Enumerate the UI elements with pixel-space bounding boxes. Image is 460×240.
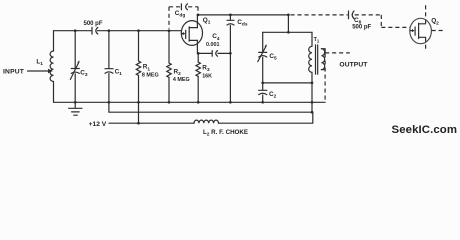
node rail1 / C1 xyxy=(108,101,111,104)
node rail1 / R3 xyxy=(197,101,200,104)
node tank bottom / T1 xyxy=(311,82,314,85)
capacitor 500pF (series, top rail) xyxy=(91,27,93,34)
transformer T1 primary xyxy=(311,32,313,46)
svg-text:T1: T1 xyxy=(314,37,320,43)
wire dashed output bottom to rail1 xyxy=(324,54,326,102)
node C4 / Cds column xyxy=(229,52,232,55)
resistor R3 xyxy=(197,53,199,62)
node drain / tank feed xyxy=(287,14,290,17)
svg-text:R1: R1 xyxy=(143,64,151,73)
node top rail / R2 / Cdg xyxy=(168,29,171,32)
wire dashed Q2 source xyxy=(425,38,427,49)
svg-text:C5: C5 xyxy=(269,53,277,62)
capacitor C4 xyxy=(198,52,211,54)
svg-text:R2: R2 xyxy=(174,68,182,77)
inductor L2 RF choke xyxy=(194,120,218,123)
wire INPUT lead xyxy=(28,70,49,72)
node rail1 / R1 xyxy=(137,101,140,104)
wire secondary bottom xyxy=(321,69,325,71)
svg-text:Cds: Cds xyxy=(237,19,248,28)
wire tank bottom horizontal xyxy=(263,82,312,84)
wire dashed C6 line xyxy=(291,14,348,16)
svg-text:500 pF: 500 pF xyxy=(84,21,103,27)
capacitor C2 xyxy=(262,83,264,90)
node rail1 / T1 column xyxy=(311,101,314,104)
svg-text:Q1: Q1 xyxy=(203,17,211,26)
transistor Q1 (FET in circle) xyxy=(181,21,202,46)
node drain / Cdg xyxy=(197,14,200,17)
wire ground rail (rail1) xyxy=(54,101,326,103)
node top rail / C3 xyxy=(74,29,77,32)
node source / R3 / C4 xyxy=(197,52,200,55)
wire tank top horizontal xyxy=(263,31,312,33)
node tank bottom / C5 C2 xyxy=(261,82,264,85)
wire top rail right segment xyxy=(97,30,181,32)
svg-text:C2: C2 xyxy=(269,91,277,100)
svg-text:L1: L1 xyxy=(36,58,43,67)
ground symbol xyxy=(69,102,82,115)
svg-text:R3: R3 xyxy=(202,65,210,74)
svg-text:0.001: 0.001 xyxy=(206,42,220,48)
resistor R2 xyxy=(168,31,170,63)
capacitor Cds xyxy=(229,15,231,20)
svg-text:+12 V: +12 V xyxy=(89,121,107,128)
node rail1 / R2 xyxy=(168,101,171,104)
node rail1 / C2 xyxy=(261,101,264,104)
transformer T1 secondary xyxy=(321,49,324,70)
capacitor C3 (variable) xyxy=(74,31,76,68)
svg-text:OUTPUT: OUTPUT xyxy=(339,62,368,69)
inductor L1 xyxy=(53,31,55,51)
svg-text:500 pF: 500 pF xyxy=(352,24,371,30)
wire tank feed vertical xyxy=(287,15,289,32)
capacitor C1 xyxy=(108,31,110,68)
svg-text:INPUT: INPUT xyxy=(3,69,25,76)
node rail1 / C3 ground xyxy=(74,101,77,104)
svg-text:16K: 16K xyxy=(202,74,212,80)
resistor R1 xyxy=(138,31,140,61)
svg-text:4 MEG: 4 MEG xyxy=(173,77,190,83)
node rail2 / T1 / +12V xyxy=(311,111,314,114)
svg-text:C1: C1 xyxy=(115,68,123,77)
capacitor C6 xyxy=(348,11,350,19)
wire dashed Q2 right lead xyxy=(432,30,446,32)
wire Q1 source lead xyxy=(196,40,198,53)
transformer T1 core xyxy=(316,45,318,74)
node +12V / R1 xyxy=(137,122,140,125)
arrowhead input xyxy=(48,69,53,73)
wire +12V rail xyxy=(109,122,194,124)
node top rail / C1 xyxy=(108,29,111,32)
svg-text:C3: C3 xyxy=(80,69,88,78)
wire dashed Cdg branch right xyxy=(188,6,198,8)
svg-text:C4: C4 xyxy=(212,33,220,42)
svg-text:Cdg: Cdg xyxy=(175,10,186,19)
svg-text:SeekIC.com: SeekIC.com xyxy=(392,124,458,136)
capacitor Cdg xyxy=(180,4,182,10)
wire secondary top xyxy=(321,49,325,53)
node tank top xyxy=(287,31,290,34)
svg-text:Q2: Q2 xyxy=(431,18,439,27)
wire dashed Q2 drain xyxy=(425,3,427,23)
wire top rail left segment xyxy=(54,30,92,32)
wire rail2 xyxy=(109,102,312,112)
svg-text:8 MEG: 8 MEG xyxy=(142,72,159,78)
wire dashed output top xyxy=(325,52,350,54)
capacitor C5 (variable) xyxy=(262,32,264,52)
wire drain rail xyxy=(198,14,288,16)
transistor Q2 (FET in circle) xyxy=(410,18,432,43)
node top rail / R1 xyxy=(137,29,140,32)
wire Q1 drain lead xyxy=(196,15,198,28)
wire +12V rail right xyxy=(219,112,313,123)
node drain / Cds xyxy=(229,14,232,17)
node rail1 / Cds xyxy=(229,101,232,104)
wire dashed Cdg branch left xyxy=(168,7,170,29)
svg-text:L2 R. F. CHOKE: L2 R. F. CHOKE xyxy=(203,129,248,138)
